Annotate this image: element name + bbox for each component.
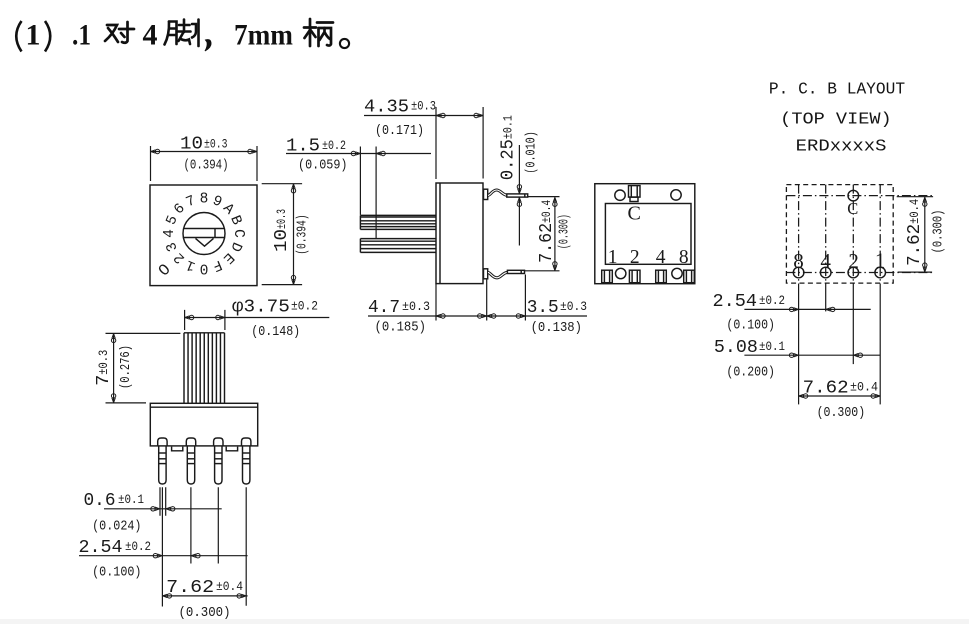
svg-text:(0.300): (0.300): [931, 210, 947, 254]
svg-text:1: 1: [875, 249, 886, 273]
dimension 0.25±0.1 (0.010) pin thickness: [517, 145, 521, 246]
pcb: hole C: [848, 190, 859, 201]
svg-text:8: 8: [793, 249, 804, 273]
pcb: board outline (dashed): [786, 185, 893, 284]
svg-text:ERDxxxxS: ERDxxxxS: [796, 138, 887, 157]
svg-text:1: 1: [608, 247, 618, 268]
svg-text:C: C: [628, 203, 641, 225]
svg-text:(0.300): (0.300): [179, 605, 231, 621]
svg-text:3.5: 3.5: [527, 298, 559, 318]
dimension 7±0.3 (0.276) shaft length: [106, 333, 181, 403]
svg-text:2.54: 2.54: [713, 292, 758, 312]
svg-text:±0.3: ±0.3: [204, 138, 228, 152]
front view: knurled shaft: [184, 333, 225, 404]
svg-text:(0.024): (0.024): [92, 519, 141, 535]
side view: bottom pin stub: [484, 269, 488, 279]
bottom view: inner recess: [605, 204, 691, 265]
svg-text:4: 4: [162, 229, 178, 238]
front view: pin heads and pins: [158, 438, 251, 484]
front view: body flange line: [150, 406, 257, 408]
svg-text:4: 4: [143, 19, 158, 52]
top view: switch body square: [150, 185, 257, 286]
side view: top pin stub: [484, 189, 488, 199]
svg-text:2.54: 2.54: [79, 538, 123, 558]
side view: shaft knurl lower band: [360, 239, 436, 253]
svg-text:±0.1: ±0.1: [118, 493, 144, 507]
scan edge strip at bottom: [0, 619, 969, 624]
dimension 4.7±0.3 (0.185) body width bottom: [368, 275, 587, 321]
dimension 5.08±0.1 (0.200) pcb spacing: [744, 353, 880, 357]
side view: body front flange line: [439, 183, 441, 284]
svg-text:C: C: [847, 199, 858, 218]
svg-text:(0.300): (0.300): [817, 405, 866, 421]
svg-text:1: 1: [26, 19, 41, 52]
pcb: centerline extensions below board: [799, 284, 881, 405]
svg-text:±0.2: ±0.2: [759, 294, 785, 308]
svg-text:4: 4: [820, 249, 831, 273]
svg-text:P. C. B LAYOUT: P. C. B LAYOUT: [769, 81, 905, 100]
svg-text:8: 8: [679, 247, 689, 268]
dimension 4.35±0.3 (0.171) body depth: [364, 107, 483, 179]
svg-text:0.6: 0.6: [84, 491, 116, 511]
side view: switch body: [436, 183, 483, 284]
svg-text:±0.3: ±0.3: [411, 100, 436, 114]
front view: standoff bumps: [172, 447, 183, 451]
svg-text:7.62: 7.62: [803, 378, 849, 398]
top view: rotor circle: [183, 213, 225, 255]
svg-text:±0.3: ±0.3: [560, 300, 587, 314]
svg-text:4: 4: [656, 247, 666, 268]
pcb: holes 8 4 2 1: [793, 267, 885, 278]
svg-text:(0.394): (0.394): [184, 158, 229, 174]
svg-text:±0.1: ±0.1: [759, 340, 785, 354]
svg-text:(0.059): (0.059): [298, 158, 348, 174]
bottom view: top locating holes: [615, 190, 625, 200]
P.C.B LAYOUT heading: [769, 81, 905, 157]
dimension 2.54±0.2 (0.100) pin pitch: [79, 554, 248, 558]
svg-text:2: 2: [630, 247, 640, 268]
svg-text:10: 10: [180, 135, 203, 155]
svg-text:(TOP VIEW): (TOP VIEW): [780, 111, 892, 130]
svg-text:0: 0: [200, 260, 209, 276]
svg-text:7.62: 7.62: [166, 578, 214, 598]
svg-text:(0.100): (0.100): [726, 317, 775, 333]
dimension 3.5±0.3 (0.138) pin length bottom: [527, 298, 587, 336]
top view: rotor pointer notch: [196, 238, 214, 246]
side view: shaft knurl upper band: [360, 215, 436, 229]
dimension 7.62±0.4 (0.300) side view pin span: [525, 197, 560, 271]
svg-text:(0.394): (0.394): [295, 214, 311, 254]
dimension 7.62±0.4 (0.300) pcb hole row to C: [897, 197, 933, 272]
top view: dial characters 0-F: [155, 192, 246, 281]
svg-text:(0.010): (0.010): [524, 131, 540, 174]
side view: bottom pin tip bar: [507, 270, 524, 273]
dimension 10±0.3 (0.394) right of top view: [262, 184, 302, 285]
svg-text:±0.2: ±0.2: [322, 139, 346, 153]
svg-text:(0.300): (0.300): [557, 214, 573, 249]
svg-text:4.7: 4.7: [368, 298, 400, 318]
side view: top pin tip bar: [507, 194, 528, 197]
top view: rotor slot: [184, 229, 225, 238]
svg-text:7mm: 7mm: [234, 19, 293, 52]
svg-text:±0.2: ±0.2: [125, 540, 151, 554]
svg-text:(0.171): (0.171): [375, 123, 424, 139]
dimension φ3.75±0.2 (0.148) shaft diameter: [185, 310, 330, 330]
front view: body: [150, 403, 257, 446]
dimension 2.54±0.2 (0.100) pcb pitch: [744, 307, 870, 311]
bottom view: outer body outline: [595, 184, 695, 284]
svg-text:(0.148): (0.148): [251, 324, 300, 340]
svg-text:C: C: [230, 229, 246, 238]
bottom view: bottom terminal posts and holes: [602, 268, 695, 282]
bottom view: common pin C (square post): [629, 186, 641, 202]
svg-text:±0.3: ±0.3: [402, 300, 430, 314]
dimension 1.5±0.2 (0.059) shaft slot depth: [286, 147, 431, 239]
svg-text:±0.4: ±0.4: [216, 580, 243, 594]
svg-text:±0.4: ±0.4: [850, 380, 878, 394]
svg-text:(0.185): (0.185): [375, 320, 427, 336]
svg-text:.1: .1: [72, 19, 91, 52]
svg-text:4.35: 4.35: [364, 98, 409, 118]
svg-text:2: 2: [848, 249, 859, 273]
svg-text:1.5: 1.5: [286, 137, 320, 157]
svg-text:φ3.75: φ3.75: [232, 298, 290, 318]
pcb: vertical hole centerlines: [799, 185, 881, 284]
svg-text:(0.138): (0.138): [531, 320, 582, 336]
svg-text:(0.100): (0.100): [92, 565, 141, 581]
svg-text:(0.200): (0.200): [726, 365, 775, 381]
side view: top pin gull-wing lead: [488, 190, 507, 195]
dimension 10±0.3 (0.394) top of top view: [151, 146, 258, 181]
title line: [16, 19, 349, 52]
dimension 7.62±0.4 (0.300) pcb row span: [799, 394, 881, 398]
pcb: hole labels 8 4 2 1: [793, 249, 885, 274]
svg-text:8: 8: [200, 192, 209, 208]
svg-text:±0.2: ±0.2: [291, 300, 318, 314]
dimension 7.62±0.4 (0.300) pin row span: [162, 594, 247, 598]
pcb: horizontal hole centerlines: [786, 196, 933, 273]
dimension 0.6±0.1 (0.024) pin width: [104, 487, 246, 606]
svg-text:(0.276): (0.276): [118, 345, 134, 389]
side view: bottom pin gull-wing lead: [488, 272, 507, 278]
bottom view: terminal labels 1 2 4 8: [608, 247, 689, 268]
svg-text:5.08: 5.08: [714, 338, 758, 358]
